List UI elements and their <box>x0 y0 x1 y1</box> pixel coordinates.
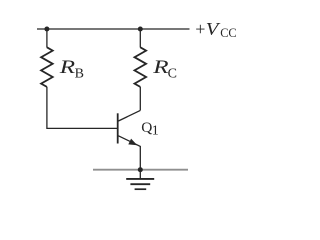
node: junction dot above RC <box>138 27 143 32</box>
wire: rail to RB top <box>46 29 48 48</box>
svg-text:C: C <box>168 67 177 82</box>
wire: RB bottom to base corner <box>47 87 118 128</box>
ground <box>126 179 154 189</box>
transistor Q1 collector lead <box>118 110 140 121</box>
node: junction dot at emitter/ground <box>138 167 143 172</box>
transistor Q1 emitter lead <box>118 136 140 170</box>
transistor Q1 base bar <box>117 113 119 143</box>
label Q1 <box>141 120 159 138</box>
label RC <box>152 56 177 82</box>
svg-text:R: R <box>59 56 76 77</box>
svg-text:V: V <box>206 20 221 39</box>
net label +VCC <box>195 19 236 40</box>
wire: top VCC rail <box>37 28 190 30</box>
svg-text:1: 1 <box>152 124 159 139</box>
resistor RB <box>41 47 53 87</box>
svg-text:+: + <box>195 19 205 39</box>
resistor RC <box>135 47 147 87</box>
svg-text:CC: CC <box>220 26 236 40</box>
wire: rail to RC top <box>139 29 141 48</box>
transistor Q1 emitter arrowhead <box>128 139 137 146</box>
wire: RC bottom to collector corner <box>139 87 141 111</box>
svg-text:R: R <box>152 56 169 77</box>
wire: gray horizontal line <box>93 169 188 171</box>
svg-text:B: B <box>75 66 84 81</box>
node: junction dot above RB <box>44 27 49 32</box>
label RB <box>59 56 84 81</box>
wire: emitter node to ground <box>139 170 141 179</box>
